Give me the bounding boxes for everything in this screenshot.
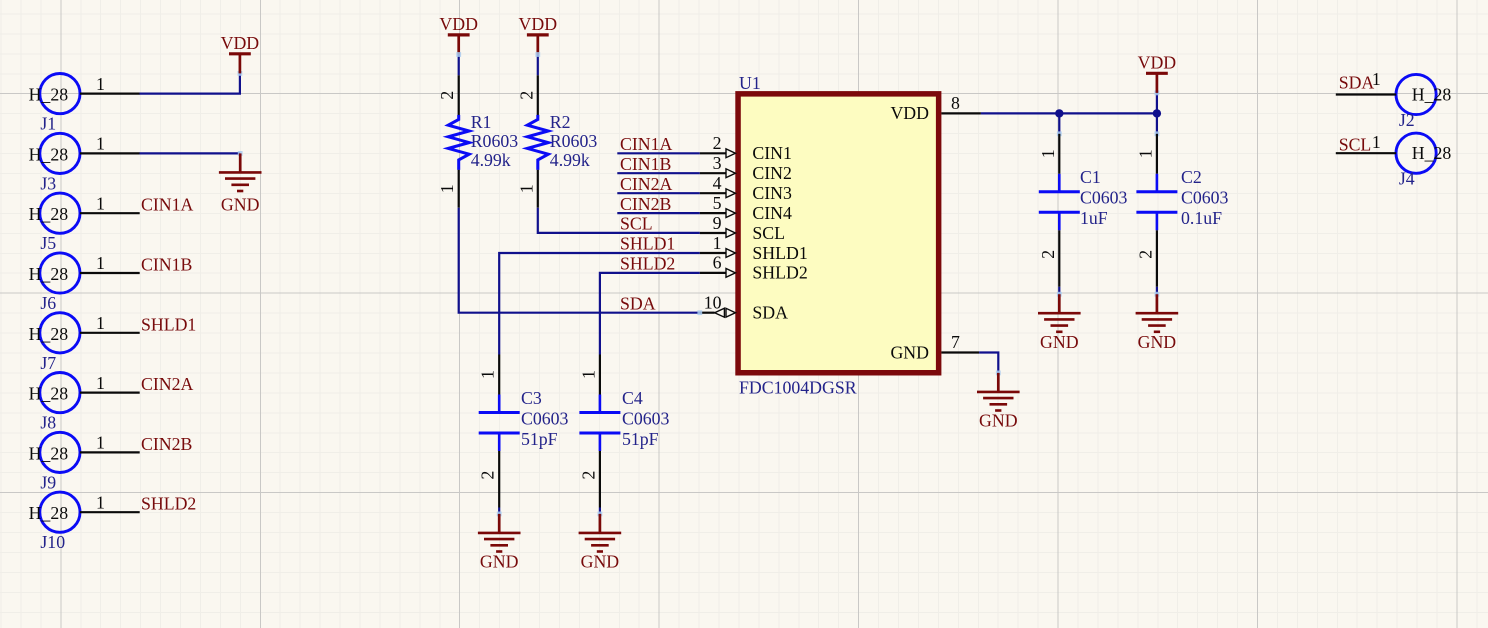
U1 pin 10 (SDA): [697, 293, 788, 323]
svg-text:H_28: H_28: [29, 443, 69, 463]
svg-text:J10: J10: [40, 532, 65, 552]
svg-text:CIN1B: CIN1B: [141, 255, 192, 275]
capacitor C4: [578, 355, 669, 508]
wire CIN2B stub: [617, 212, 700, 214]
wire C1 to GND: [1058, 287, 1060, 294]
svg-text:SHLD1: SHLD1: [141, 314, 196, 334]
svg-text:1: 1: [96, 433, 105, 453]
svg-text:VDD: VDD: [890, 103, 929, 123]
svg-text:2: 2: [1038, 250, 1058, 259]
svg-text:J2: J2: [1399, 110, 1415, 130]
svg-text:1: 1: [1038, 149, 1058, 158]
svg-text:SHLD2: SHLD2: [620, 254, 675, 274]
svg-text:C2: C2: [1181, 167, 1202, 187]
svg-text:GND: GND: [890, 342, 929, 362]
svg-text:CIN1: CIN1: [752, 143, 792, 163]
svg-text:8: 8: [951, 93, 960, 113]
connector J7: [29, 313, 140, 373]
svg-text:SCL: SCL: [752, 223, 785, 243]
svg-text:4: 4: [713, 173, 722, 193]
svg-text:1: 1: [437, 184, 457, 193]
svg-text:CIN1B: CIN1B: [620, 154, 671, 174]
svg-text:J5: J5: [40, 233, 56, 253]
capacitor C3: [478, 355, 569, 508]
svg-text:H_28: H_28: [29, 503, 69, 523]
svg-text:1: 1: [578, 370, 598, 379]
power port GND (U1): [977, 373, 1020, 431]
svg-text:10: 10: [704, 293, 722, 313]
svg-text:H_28: H_28: [1412, 85, 1452, 105]
svg-text:H_28: H_28: [29, 204, 69, 224]
svg-text:CIN3: CIN3: [752, 183, 792, 203]
svg-text:SHLD1: SHLD1: [620, 234, 675, 254]
power port GND (J3): [219, 153, 262, 214]
power port GND (C4): [579, 514, 622, 572]
wire C1 top stub: [1058, 113, 1060, 133]
svg-text:C0603: C0603: [1181, 188, 1229, 208]
svg-text:J6: J6: [40, 293, 56, 313]
U1 pin 6 (SHLD2): [700, 253, 808, 283]
power port VDD (J1): [221, 33, 260, 73]
svg-text:C0603: C0603: [521, 408, 569, 428]
svg-text:VDD: VDD: [221, 33, 260, 53]
svg-text:3: 3: [713, 153, 722, 173]
svg-text:GND: GND: [480, 552, 519, 572]
connector J5: [29, 193, 140, 253]
svg-text:1: 1: [713, 233, 722, 253]
U1 pin 2 (CIN1): [700, 133, 792, 163]
capacitor C2: [1135, 134, 1228, 287]
svg-text:VDD: VDD: [439, 14, 478, 34]
svg-text:1: 1: [96, 193, 105, 213]
svg-text:2: 2: [437, 91, 457, 100]
svg-text:CIN2A: CIN2A: [620, 174, 673, 194]
svg-text:R1: R1: [471, 112, 492, 132]
svg-text:51pF: 51pF: [622, 429, 659, 449]
svg-text:7: 7: [951, 332, 960, 352]
svg-text:J8: J8: [40, 413, 56, 433]
svg-text:CIN2B: CIN2B: [141, 434, 192, 454]
svg-text:CIN1A: CIN1A: [620, 134, 673, 154]
power port VDD (C2 rail): [1138, 53, 1177, 93]
wire C3 to GND: [498, 508, 500, 514]
U1 pin 1 (SHLD1): [700, 233, 808, 263]
svg-text:GND: GND: [1138, 332, 1177, 352]
connector J4: [1336, 133, 1452, 189]
svg-text:H_28: H_28: [29, 324, 69, 344]
svg-text:H_28: H_28: [29, 144, 69, 164]
svg-text:CIN2B: CIN2B: [620, 194, 671, 214]
svg-text:1: 1: [478, 370, 498, 379]
svg-text:2: 2: [1135, 250, 1155, 259]
svg-text:SDA: SDA: [1339, 73, 1375, 93]
node J3/GND endpoint: [238, 151, 243, 156]
U1 pin 4 (CIN3): [700, 173, 792, 203]
resistor R1: [437, 75, 518, 207]
svg-text:J7: J7: [40, 353, 56, 373]
svg-text:VDD: VDD: [1138, 53, 1177, 73]
connector J6: [29, 253, 140, 313]
connector J9: [29, 432, 140, 492]
svg-text:H_28: H_28: [29, 264, 69, 284]
wire C2 top stub: [1156, 113, 1158, 133]
connector J3: [29, 133, 140, 193]
node J1/VDD endpoint: [238, 71, 243, 76]
svg-text:C0603: C0603: [1080, 188, 1128, 208]
wire C4 to GND: [599, 508, 601, 514]
svg-text:H_28: H_28: [29, 85, 69, 105]
svg-text:1: 1: [1135, 149, 1155, 158]
svg-text:GND: GND: [581, 552, 620, 572]
power port GND (C2): [1136, 294, 1179, 352]
svg-text:1: 1: [96, 134, 105, 154]
svg-text:C4: C4: [622, 388, 643, 408]
wire SHLD2 to C4: [600, 273, 700, 355]
U1 pin 9 (SCL): [700, 213, 785, 243]
power port VDD (R1): [439, 14, 478, 54]
svg-text:1: 1: [96, 313, 105, 333]
svg-text:2: 2: [713, 133, 722, 153]
power port GND (C3): [478, 514, 521, 572]
svg-text:SHLD1: SHLD1: [752, 243, 807, 263]
svg-text:1: 1: [516, 184, 536, 193]
connector J10: [29, 492, 140, 552]
svg-text:CIN4: CIN4: [752, 203, 792, 223]
wire GND from pin 7: [979, 353, 998, 373]
resistor R2: [516, 75, 597, 207]
svg-text:2: 2: [478, 471, 498, 480]
svg-text:C1: C1: [1080, 167, 1101, 187]
svg-text:1uF: 1uF: [1080, 208, 1108, 228]
svg-text:SCL: SCL: [1339, 135, 1372, 155]
svg-text:R2: R2: [550, 112, 571, 132]
wire SHLD1 to C3: [499, 253, 700, 355]
svg-text:GND: GND: [1040, 332, 1079, 352]
svg-text:CIN2A: CIN2A: [141, 374, 194, 394]
wire CIN1A stub: [617, 152, 700, 154]
wire CIN2A stub: [617, 192, 700, 194]
wire VDD riser at C2: [1156, 93, 1158, 114]
IC U1 FDC1004DGSR body: [738, 73, 939, 397]
svg-text:CIN1A: CIN1A: [141, 195, 194, 215]
power port VDD (R2): [519, 14, 558, 54]
svg-text:J4: J4: [1399, 169, 1415, 189]
svg-text:H_28: H_28: [29, 384, 69, 404]
svg-text:J9: J9: [40, 472, 56, 492]
wire J1 pin to VDD: [140, 73, 240, 93]
U1 pin 3 (CIN2): [700, 153, 792, 183]
connector J8: [29, 373, 140, 433]
svg-text:SHLD2: SHLD2: [141, 494, 196, 514]
svg-text:GND: GND: [979, 411, 1018, 431]
svg-text:C3: C3: [521, 388, 542, 408]
svg-text:1: 1: [96, 492, 105, 512]
svg-text:CIN2: CIN2: [752, 163, 792, 183]
wire CIN1B stub: [617, 172, 700, 174]
svg-text:C0603: C0603: [622, 408, 670, 428]
U1 pin 7 (GND): [890, 332, 979, 362]
power port GND (C1): [1038, 294, 1081, 352]
junction at C1: [1055, 109, 1063, 117]
svg-text:1: 1: [96, 253, 105, 273]
junction at C2: [1153, 109, 1161, 117]
svg-text:SDA: SDA: [752, 303, 788, 323]
svg-text:4.99k: 4.99k: [550, 150, 590, 170]
svg-text:U1: U1: [739, 73, 761, 93]
svg-text:4.99k: 4.99k: [471, 150, 511, 170]
svg-text:9: 9: [713, 213, 722, 233]
wire VDD to R1: [458, 55, 460, 76]
svg-text:2: 2: [516, 91, 536, 100]
svg-text:H_28: H_28: [1412, 143, 1452, 163]
wire J3 pin to GND: [140, 152, 241, 154]
wire VDD net from pin 8: [981, 112, 1157, 114]
wire VDD to R2: [537, 55, 539, 76]
wire R1 to SDA pin 10: [459, 208, 700, 313]
U1 pin 8 (VDD): [890, 93, 980, 123]
svg-text:SCL: SCL: [620, 214, 653, 234]
connector J2: [1336, 74, 1452, 130]
svg-text:J1: J1: [40, 114, 56, 134]
connector J1: [29, 74, 140, 134]
svg-text:1: 1: [1372, 132, 1381, 152]
svg-text:1: 1: [1372, 69, 1381, 89]
capacitor C1: [1038, 134, 1128, 287]
svg-text:GND: GND: [221, 194, 260, 214]
wire C2 to GND: [1156, 287, 1158, 294]
svg-text:1: 1: [96, 74, 105, 94]
U1 pin 5 (CIN4): [700, 193, 792, 223]
svg-text:R0603: R0603: [471, 131, 519, 151]
svg-text:VDD: VDD: [519, 14, 558, 34]
svg-text:2: 2: [578, 471, 598, 480]
svg-text:FDC1004DGSR: FDC1004DGSR: [739, 377, 857, 397]
svg-text:SDA: SDA: [620, 293, 656, 313]
svg-text:51pF: 51pF: [521, 429, 558, 449]
svg-text:5: 5: [713, 193, 722, 213]
svg-text:R0603: R0603: [550, 131, 598, 151]
svg-text:J3: J3: [40, 173, 56, 193]
wire R2 to SCL pin 9: [538, 208, 700, 233]
svg-text:1: 1: [96, 373, 105, 393]
svg-text:6: 6: [713, 253, 722, 273]
svg-text:SHLD2: SHLD2: [752, 263, 807, 283]
svg-text:0.1uF: 0.1uF: [1181, 208, 1222, 228]
